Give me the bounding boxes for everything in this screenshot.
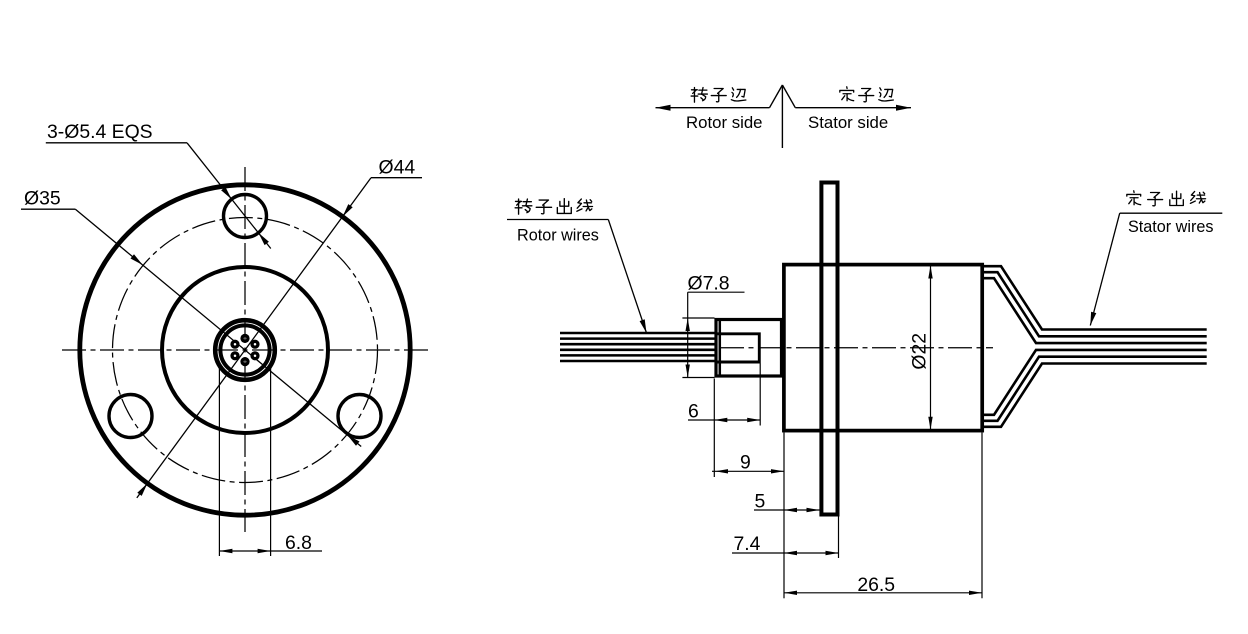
left view outer flange circle D44: [80, 185, 410, 515]
bolt hole lower-right: [338, 395, 381, 438]
svg-text:7.4: 7.4: [734, 533, 761, 555]
svg-text:Rotor wires: Rotor wires: [517, 227, 599, 245]
svg-text:Stator side: Stator side: [808, 113, 888, 132]
rotor wire 5: [560, 354, 715, 357]
bolt hole lower-left: [109, 395, 152, 438]
D7.8 dimension: [682, 317, 714, 319]
right view centerline: [720, 347, 993, 349]
center shaft ring inner: [220, 325, 269, 374]
dim 7.4: [838, 517, 840, 559]
svg-text:Ø35: Ø35: [24, 188, 61, 210]
horizontal centerline: [62, 349, 429, 351]
label zhuanzichuxian: [515, 199, 532, 214]
dim 6: [713, 379, 715, 426]
dim 9: [713, 426, 715, 478]
rotor side arrow line: [770, 85, 783, 108]
rotor wire 1: [560, 332, 715, 335]
wire contact dot 270deg: [240, 357, 249, 366]
svg-text:5: 5: [755, 491, 766, 513]
tube end cap line: [719, 318, 722, 378]
vertical centerline: [244, 167, 246, 532]
center shaft ring outer: [215, 320, 275, 380]
6.8 dimension line: [219, 550, 322, 552]
svg-text:Ø7.8: Ø7.8: [688, 273, 730, 295]
rotor wire 4: [560, 349, 715, 352]
dim 26.5: [783, 477, 785, 598]
mounting flange: [821, 183, 837, 515]
stator wire bottom 1: [983, 364, 1207, 427]
stator wire bottom 3: [983, 350, 1207, 415]
svg-text:9: 9: [740, 452, 751, 474]
stator wire top 2: [983, 272, 1207, 336]
svg-text:Rotor side: Rotor side: [686, 113, 762, 132]
wire contact dot 330deg: [250, 351, 259, 360]
D35 dimension line: [75, 209, 361, 446]
stator side arrow line: [782, 85, 795, 108]
svg-text:Ø22: Ø22: [909, 333, 931, 370]
dim 5: [754, 509, 820, 511]
3-D5.4 hole dimension line: [187, 143, 271, 249]
body rectangle D22: [784, 265, 982, 431]
label dingzichuxian: [1127, 191, 1141, 205]
wire contact dot 210deg: [230, 351, 239, 360]
label dingzibian: [840, 87, 854, 101]
D44 dimension line: [137, 178, 371, 498]
left view inner body circle D22: [162, 267, 328, 433]
svg-text:3-Ø5.4 EQS: 3-Ø5.4 EQS: [47, 121, 153, 143]
bolt circle D35 centerline: [113, 218, 378, 483]
svg-text:Ø44: Ø44: [379, 157, 416, 179]
svg-text:6.8: 6.8: [285, 532, 312, 554]
svg-text:26.5: 26.5: [857, 574, 895, 596]
wire contact dot 150deg: [230, 340, 239, 349]
rotor/stator side divider line: [781, 85, 783, 148]
rotor tube D7.8: [716, 320, 782, 377]
stator wire bottom 2: [983, 357, 1207, 421]
svg-text:6: 6: [688, 401, 699, 423]
inner wire channel: [715, 334, 760, 362]
rotor wire 3: [560, 343, 715, 346]
wire contact dot 30deg: [250, 340, 259, 349]
stator wire top 3: [983, 278, 1207, 343]
wire contact dot 90deg: [240, 334, 249, 343]
rotor wire 2: [560, 337, 715, 340]
D22 dimension: [930, 265, 932, 431]
rotor wire 6: [560, 360, 715, 363]
stator wires leader: [1120, 212, 1223, 214]
label zhuanzibian: [691, 87, 707, 102]
svg-text:Stator wires: Stator wires: [1128, 218, 1213, 236]
stator wire top 1: [983, 266, 1207, 329]
bolt hole top: [224, 195, 267, 238]
6.8 extension lines: [218, 365, 220, 556]
rotor wires leader: [507, 219, 608, 221]
